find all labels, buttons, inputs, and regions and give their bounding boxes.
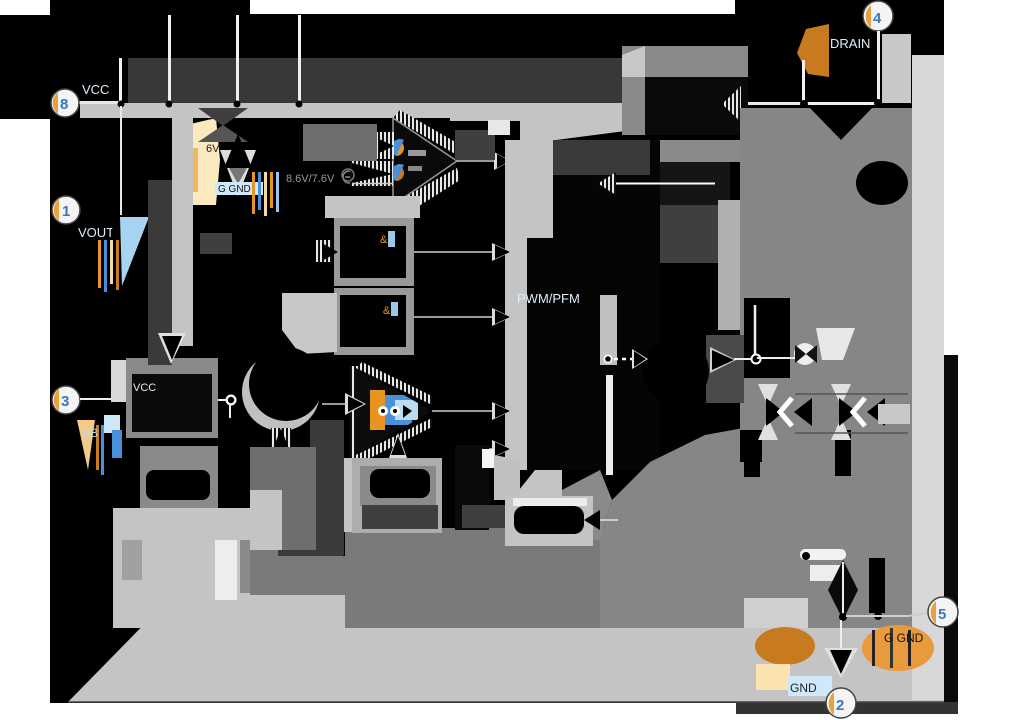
svg-text:4: 4	[873, 10, 882, 27]
svg-text:GND: GND	[790, 681, 817, 695]
svg-text:&: &	[383, 305, 391, 317]
svg-text:PWM/PFM: PWM/PFM	[517, 291, 580, 306]
svg-text:6V: 6V	[206, 143, 220, 155]
svg-text:8: 8	[60, 96, 68, 113]
svg-text:VCC: VCC	[133, 382, 156, 394]
svg-text:VCC: VCC	[82, 82, 109, 97]
svg-text:G GND: G GND	[218, 184, 251, 195]
svg-text:G GND: G GND	[884, 631, 924, 645]
svg-text:SB: SB	[82, 426, 98, 440]
svg-text:8.6V/7.6V: 8.6V/7.6V	[286, 173, 335, 185]
svg-text:5: 5	[938, 606, 946, 623]
svg-text:VOUT: VOUT	[78, 225, 114, 240]
svg-text:DRAIN: DRAIN	[830, 36, 870, 51]
svg-text:1: 1	[62, 203, 70, 220]
svg-text:3: 3	[61, 393, 69, 410]
svg-text:&: &	[380, 234, 388, 246]
svg-text:2: 2	[836, 697, 844, 714]
